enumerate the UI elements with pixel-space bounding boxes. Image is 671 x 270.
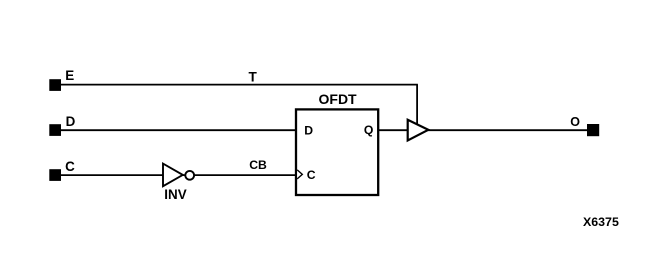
svg-text:D: D — [66, 114, 76, 129]
svg-text:CB: CB — [249, 158, 267, 172]
svg-text:C: C — [65, 159, 75, 174]
svg-text:C: C — [307, 168, 316, 182]
svg-text:X6375: X6375 — [583, 215, 619, 229]
svg-text:E: E — [65, 68, 74, 83]
svg-text:INV: INV — [164, 187, 186, 202]
svg-text:T: T — [249, 69, 258, 84]
svg-text:OFDT: OFDT — [319, 91, 358, 107]
svg-text:Q: Q — [364, 123, 373, 137]
svg-text:D: D — [304, 124, 313, 138]
svg-text:O: O — [570, 115, 580, 129]
